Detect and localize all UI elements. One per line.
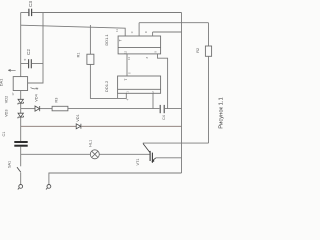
svg-text:DD1.1: DD1.1 xyxy=(104,34,109,46)
svg-text:HL1: HL1 xyxy=(88,140,92,147)
wire rail B xyxy=(21,25,126,36)
svg-text:13: 13 xyxy=(127,57,131,61)
svg-text:T: T xyxy=(124,79,128,81)
wire pin stub top C xyxy=(138,23,140,36)
diode VD1 xyxy=(76,124,81,129)
wire H3 right xyxy=(68,108,159,110)
wire V1 between diodes xyxy=(20,104,22,114)
lamp HL1 xyxy=(90,150,99,159)
wire V1 lower xyxy=(20,117,22,141)
svg-text:C1: C1 xyxy=(2,132,6,137)
wire pin DD1.1 to DD1.2 xyxy=(126,54,128,76)
svg-text:R1: R1 xyxy=(77,52,81,57)
wire pin DD1.1 lower right xyxy=(158,54,168,109)
resistor R1 branch wire xyxy=(89,25,91,54)
svg-text:SA1: SA1 xyxy=(7,161,11,168)
plug X1 xyxy=(18,185,23,190)
transistor VT1 xyxy=(143,144,156,163)
wire H3 end xyxy=(165,108,182,110)
wire V4 upper xyxy=(208,23,210,46)
wire collector VT1 xyxy=(143,142,209,144)
diode VD3 xyxy=(18,113,24,118)
squiggle mark right of DA1 xyxy=(31,88,38,90)
diode VD4 xyxy=(35,106,40,111)
wire below R1 xyxy=(90,64,126,98)
wire V1 below DA1 xyxy=(20,91,22,100)
svg-text:VT1: VT1 xyxy=(136,159,140,166)
capacitor C1 xyxy=(14,142,27,146)
svg-text:DA1: DA1 xyxy=(0,78,4,87)
wire C2 branch xyxy=(21,63,28,65)
arrow above DA1 xyxy=(8,69,15,71)
wire rail A right xyxy=(32,12,181,14)
wire H21 to R2 xyxy=(139,22,208,24)
IC box DD1.2 xyxy=(118,76,161,93)
IC box DD1.1 xyxy=(118,36,161,54)
wire H3 left xyxy=(21,108,35,110)
wire pin stub top D xyxy=(152,32,154,36)
wire V1 below C1 xyxy=(20,147,22,167)
wire emitter VT1 xyxy=(156,157,182,159)
wire H3 mid xyxy=(40,108,52,110)
wire V5 right rail xyxy=(181,13,183,174)
svg-text:S: S xyxy=(128,72,132,74)
capacitor C4 xyxy=(160,105,164,113)
svg-text:R2: R2 xyxy=(196,48,200,53)
wire H30 xyxy=(153,31,182,33)
svg-text:VD1: VD1 xyxy=(76,114,80,121)
switch SA1 xyxy=(17,167,21,172)
svg-text:VD2: VD2 xyxy=(5,96,9,103)
wire rail A left xyxy=(21,12,29,14)
resistor R2 xyxy=(205,46,211,56)
svg-text:DD1.2: DD1.2 xyxy=(104,80,109,92)
svg-text:VD3: VD3 xyxy=(5,110,9,117)
wire V2 branch xyxy=(28,13,43,84)
wire H5 left xyxy=(21,153,91,155)
svg-text:Рисунок 1.1: Рисунок 1.1 xyxy=(219,97,225,129)
wire C2 branch right xyxy=(32,63,43,65)
diode VD2 xyxy=(18,99,24,104)
svg-text:VD4: VD4 xyxy=(35,94,39,101)
regulator DA1 xyxy=(13,77,27,91)
wire to plug X1 xyxy=(20,173,22,185)
wire H5 right xyxy=(99,153,149,155)
resistor R3 xyxy=(52,106,68,111)
wire V1 upper xyxy=(20,13,22,77)
wire H4 right xyxy=(81,125,181,127)
svg-text:12: 12 xyxy=(124,50,128,54)
svg-text:C4: C4 xyxy=(162,115,166,120)
svg-text:17: 17 xyxy=(11,92,15,96)
wire H6 bottom xyxy=(49,173,182,184)
resistor R1 xyxy=(87,54,94,64)
svg-text:11: 11 xyxy=(115,29,119,32)
svg-text:C: C xyxy=(130,31,134,33)
capacitor C2 xyxy=(29,59,32,68)
svg-text:T: T xyxy=(119,39,123,41)
svg-text:C2: C2 xyxy=(26,49,31,55)
wire V4 lower xyxy=(208,56,210,143)
capacitor C3 xyxy=(29,9,32,16)
wire pin DD1.2 bottom right xyxy=(152,93,154,108)
wire H4 left xyxy=(21,125,76,127)
svg-text:R3: R3 xyxy=(55,98,59,103)
plug X2 xyxy=(46,185,51,190)
svg-text:D: D xyxy=(144,31,148,33)
svg-text:C3: C3 xyxy=(28,1,33,7)
